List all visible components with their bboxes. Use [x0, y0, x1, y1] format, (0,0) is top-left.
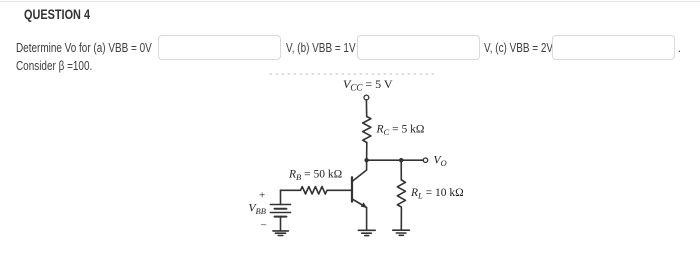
question text line 2: [16, 60, 92, 73]
svg-text:−: −: [261, 220, 267, 232]
wire RL to ground: [400, 208, 402, 230]
question text line 1: [16, 42, 152, 55]
svg-text:RB = 50 kΩ: RB = 50 kΩ: [288, 169, 342, 183]
svg-text:VO: VO: [434, 155, 447, 169]
svg-text:VCC = 5 V: VCC = 5 V: [343, 77, 393, 93]
svg-text:VBB: VBB: [249, 203, 266, 217]
ground (VBB): [273, 231, 289, 236]
resistor RL zigzag: [397, 180, 405, 207]
transistor Q1 base bar: [351, 177, 353, 201]
emitter wire down: [366, 208, 368, 231]
transistor Q1 emitter arrowhead: [361, 202, 367, 208]
resistor Rc zigzag: [363, 117, 371, 143]
battery VBB plates: [270, 205, 290, 217]
wire battery to ground: [280, 217, 282, 231]
wire Rc to collector node: [366, 143, 368, 161]
ground (RL): [393, 230, 410, 235]
Vcc terminal: [364, 95, 369, 100]
wire RB to base: [328, 189, 352, 191]
node collector junction: [364, 158, 368, 162]
base wire: [281, 189, 301, 191]
svg-text:+: +: [259, 190, 265, 202]
wire Vcc to Rc: [365, 100, 367, 117]
wire VBB top corner: [280, 190, 282, 204]
svg-text:RC = 5 kΩ: RC = 5 kΩ: [376, 124, 425, 138]
figure crop dotted edge: [270, 73, 434, 75]
wire RL node to Vo terminal: [401, 159, 423, 161]
answer box c: [552, 35, 675, 60]
transistor Q1 collector lead: [353, 160, 367, 181]
transistor Q1 emitter lead: [353, 200, 367, 208]
circuit schematic: [240, 66, 480, 246]
header: [24, 8, 90, 22]
answer box a: [158, 35, 281, 60]
top border line: [0, 1, 700, 2]
wire collector node to RL node: [367, 159, 402, 161]
node RL junction: [399, 158, 403, 162]
wire RL node down: [400, 160, 402, 180]
resistor RB zigzag: [301, 187, 327, 194]
answer box b: [357, 35, 480, 60]
svg-text:RL = 10 kΩ: RL = 10 kΩ: [410, 187, 464, 201]
Vo terminal: [423, 158, 427, 162]
ground (emitter): [358, 230, 375, 235]
